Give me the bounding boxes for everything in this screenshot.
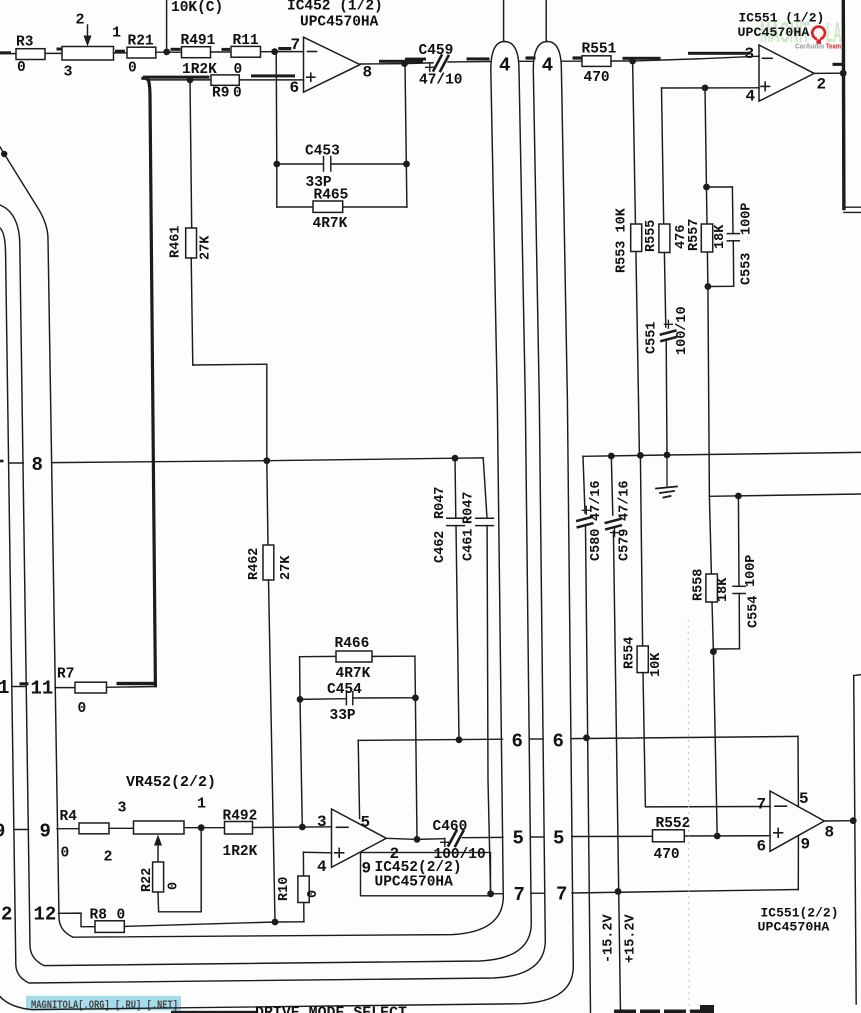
partial bold text DRIVE MODE SELECT (cut at bottom) [255, 1005, 407, 1013]
resistor R553 [615, 207, 642, 455]
terminal 3 label (VR452) [118, 800, 127, 817]
svg-text:4R7K: 4R7K [336, 666, 371, 682]
svg-text:12: 12 [34, 904, 57, 926]
svg-text:UPC4570HA: UPC4570HA [758, 920, 830, 935]
label 47/10 (C459) [419, 73, 463, 89]
wire C551 down to ground rail [665, 341, 668, 455]
svg-text:9: 9 [362, 860, 372, 878]
resistor R22 [140, 862, 182, 892]
svg-text:3: 3 [745, 45, 755, 63]
svg-text:6: 6 [512, 731, 523, 753]
potentiometer VR451 body [62, 47, 114, 61]
wire from left edge to R3 [0, 51, 16, 54]
partial label 10K(C) at top edge [171, 0, 223, 16]
wire R551 to node [611, 60, 633, 62]
wire right edge net [854, 675, 861, 1004]
capacitor C462 [433, 458, 464, 740]
svg-text:R558: R558 [692, 569, 707, 601]
svg-text:UPC4570HA: UPC4570HA [738, 25, 810, 40]
thick wire horizontal segment at +input [143, 76, 210, 79]
svg-text:8: 8 [363, 64, 373, 82]
wire R8 to node [124, 922, 275, 926]
label -15.2V [602, 913, 617, 963]
svg-text:R047: R047 [462, 492, 477, 524]
wire rail7 mid [531, 892, 544, 894]
wire R491 to R11 [211, 48, 232, 52]
pin 4 label (IC551-1) [746, 88, 756, 106]
svg-text:27K: 27K [199, 235, 214, 260]
wire rail 9 to R4 [57, 828, 79, 830]
wire rail5 to R552 [572, 835, 653, 837]
label UPC4570HA (IC452 1/2) [300, 15, 379, 31]
pin 3 label (IC452-2) [317, 813, 327, 831]
node 5 label (loop1) [513, 828, 524, 850]
ground symbol [656, 455, 677, 498]
wire pin4 corner to R10 [303, 851, 331, 854]
node pin4/R557 junction [702, 85, 709, 92]
svg-text:C579: C579 [618, 529, 633, 561]
wire rail5 mid [531, 836, 544, 838]
svg-text:R4: R4 [60, 809, 78, 825]
capacitor C579 (electrolytic) [606, 456, 633, 1013]
svg-text:7: 7 [757, 796, 767, 814]
svg-text:R552: R552 [656, 816, 691, 832]
svg-text:470: 470 [654, 847, 680, 863]
svg-text:5: 5 [361, 814, 371, 832]
svg-text:3: 3 [317, 813, 327, 831]
op-amp U4 IC551 (2/2) triangle [770, 791, 824, 851]
node C551/ground junction [664, 452, 671, 459]
wire loop left side [299, 657, 301, 700]
capacitor C460 (electrolytic) [417, 831, 503, 847]
svg-text:C454: C454 [327, 682, 362, 698]
wire rail6 drop to IC551-2 pin5 [797, 736, 799, 806]
wire horizontal rail y455 [583, 452, 861, 456]
label IC452 (2/2) text [375, 860, 462, 876]
node R558/C554 junction [710, 648, 717, 655]
svg-text:18K: 18K [713, 224, 728, 249]
wire R3 to VR451 [45, 48, 65, 54]
resistor R554 [622, 455, 664, 677]
svg-text:4: 4 [542, 55, 553, 77]
svg-text:DRIVE MODE SELECT: DRIVE MODE SELECT [255, 1005, 407, 1013]
svg-text:9: 9 [801, 836, 811, 854]
svg-text:33P: 33P [330, 708, 356, 724]
wire IC551-2 output [824, 820, 853, 822]
svg-text:R492: R492 [223, 809, 258, 825]
pin 6 label [290, 79, 300, 97]
svg-text:10K: 10K [649, 652, 664, 677]
label IC452 (1/2) [287, 0, 383, 15]
svg-text:47/16: 47/16 [589, 480, 604, 521]
pin 2 label (IC452-2) [390, 845, 400, 863]
wire pot to R492 [184, 827, 225, 829]
resistor R8 [90, 908, 126, 933]
wire down to pin6 rail [713, 652, 717, 836]
thick wire vertical (R7 net riser) [143, 78, 155, 685]
wire rail7 left [491, 893, 504, 895]
capacitor C454 [300, 682, 415, 724]
node output to thick bus [840, 70, 847, 77]
svg-text:C462: C462 [433, 531, 448, 563]
svg-text:CarAudio: CarAudio [795, 42, 824, 51]
label IC551 (1/2) [739, 11, 825, 26]
svg-text:27K: 27K [279, 555, 294, 580]
wire rail y496 to right edge [709, 494, 861, 496]
svg-text:18K: 18K [716, 577, 731, 602]
partial bold text fragments bottom right [614, 1005, 714, 1013]
capacitor C459 (electrolytic) [405, 56, 463, 72]
node output junction (IC452-2) [414, 836, 421, 843]
wire rail7 right [572, 890, 798, 894]
wire R11 to node [261, 51, 275, 53]
svg-text:3: 3 [64, 64, 73, 81]
node C462 bottom junction [456, 736, 463, 743]
label UPC4570HA (IC551-2) [758, 920, 830, 935]
node 9 rail edge glyph [0, 821, 5, 843]
wire stub into balloon 2 from top [545, 0, 547, 42]
node 6 label (loop2) [553, 731, 564, 753]
thick wire right edge bus [843, 0, 861, 212]
wire tick L1-L2 (rail 9) [14, 829, 28, 831]
svg-text:4: 4 [317, 858, 327, 876]
node pot/R492 junction [198, 824, 205, 831]
svg-text:1R2K: 1R2K [223, 844, 258, 860]
wire bus line L2 [0, 42, 531, 966]
wire R7 to thick riser [107, 682, 158, 688]
op-amp U3 IC452 (2/2) triangle [332, 809, 387, 867]
svg-text:0: 0 [78, 701, 87, 717]
wire R554 to IC551-2 pin7 [643, 673, 770, 807]
pin 8 label (IC551-2) [825, 824, 835, 842]
wire rail6 drop to IC452-2 pin5 [358, 740, 359, 818]
svg-text:470: 470 [584, 70, 610, 86]
svg-text:7: 7 [556, 884, 567, 906]
svg-text:7: 7 [514, 884, 525, 906]
watermark MAGNITOLA bottom-left banner [26, 996, 181, 1012]
node 11 label [31, 678, 54, 700]
svg-text:4R7K: 4R7K [313, 216, 348, 232]
svg-text:4: 4 [746, 88, 756, 106]
svg-text:2: 2 [817, 76, 827, 94]
wire R553 riser [633, 61, 639, 400]
wire balloon2 to R551 [561, 56, 582, 61]
svg-text:R491: R491 [181, 33, 216, 49]
wire R492 to pin 3 [253, 826, 332, 829]
terminal 1 label (VR452) [197, 796, 206, 813]
node junction R21/R491 [163, 48, 180, 56]
svg-text:6: 6 [757, 838, 767, 856]
node pin7 net junction [271, 47, 291, 55]
svg-text:0: 0 [128, 61, 137, 77]
svg-text:5: 5 [513, 828, 524, 850]
pin 3 label (IC551-1) [745, 45, 755, 63]
label 100/10 (C460) [434, 847, 486, 863]
potentiometer VR452 (2/2) body [134, 821, 185, 834]
svg-text:C461: C461 [462, 529, 477, 561]
resistor R465 [277, 164, 407, 232]
fold artifact dotted line [687, 620, 690, 1013]
svg-text:R22: R22 [140, 868, 155, 892]
svg-text:10K(C): 10K(C) [171, 0, 223, 16]
pin 9 label (IC452-2) [362, 860, 372, 878]
svg-text:8: 8 [32, 454, 43, 476]
svg-text:C554: C554 [747, 596, 762, 628]
resistor R555 [644, 220, 689, 253]
svg-text:100/10: 100/10 [675, 306, 690, 355]
pin 9 label (IC551-2) [801, 836, 811, 854]
resistor R7 [57, 667, 107, 718]
svg-text:R3: R3 [16, 35, 33, 51]
node 4 label (balloon 2) [542, 55, 553, 77]
pin 7 label (IC551-2) [757, 796, 767, 814]
node junction R461 tap [187, 77, 194, 84]
wire node to op-amp pin 7 [275, 51, 304, 53]
junction on L3 diagonal [1, 151, 7, 157]
pin 6 label (IC551-2) [757, 838, 767, 856]
resistor R557 [687, 219, 728, 252]
wire bus loop2 outer (to bottom-left exit) [0, 42, 573, 1010]
svg-text:UPC4570HA: UPC4570HA [375, 875, 454, 891]
svg-text:R7: R7 [57, 667, 74, 683]
node 6 label (loop1) [512, 731, 523, 753]
node 8 rail edge stub [0, 460, 4, 463]
svg-text:6: 6 [553, 731, 564, 753]
svg-text:1: 1 [197, 796, 206, 813]
wire R462 down to rail 12 [269, 580, 276, 922]
label VR452 (2/2) [126, 774, 216, 791]
wire tick L1-L2 (rail 11) [12, 682, 29, 686]
node C462 tap [452, 455, 459, 462]
wire rail7 riser to IC551-2 pin9 [797, 836, 799, 890]
wire between balloons [519, 56, 536, 61]
label C459 [419, 43, 454, 59]
svg-text:Team: Team [826, 42, 841, 51]
svg-text:6: 6 [290, 79, 300, 97]
svg-text:C553: C553 [740, 253, 755, 285]
pin 5 label (IC551-2) [799, 790, 809, 808]
svg-text:R8: R8 [90, 908, 107, 924]
svg-text:100P: 100P [740, 203, 755, 235]
wire feedback right riser [405, 64, 407, 207]
svg-text:IC551(2/2): IC551(2/2) [761, 906, 839, 921]
wire rail6 right segment [572, 736, 799, 738]
wire C459 to balloon1 [462, 57, 490, 61]
svg-text:VR452(2/2): VR452(2/2) [126, 774, 216, 791]
wire node to R10 [275, 921, 304, 923]
node pin3 junction (IC452-2) [299, 824, 306, 831]
node feedback right top [403, 161, 410, 168]
capacitor C551 (electrolytic) [645, 306, 691, 355]
node feedback left top [273, 161, 280, 168]
node 5 label (loop2) [553, 828, 564, 850]
wire R552 to pin6 [684, 835, 770, 837]
resistor R462 [247, 461, 294, 580]
capacitor C461 [462, 458, 494, 894]
label UPC4570HA (IC551 1/2) [738, 25, 810, 40]
node C454 left junction [297, 696, 304, 703]
svg-text:100P: 100P [744, 555, 759, 587]
wire tick L1-L2 (rail 8) [9, 462, 24, 464]
node 8 label [32, 454, 43, 476]
wire loop right side [414, 656, 417, 698]
wire from top edge into junction [166, 0, 168, 52]
svg-text:4: 4 [499, 55, 510, 77]
svg-text:C460: C460 [433, 819, 468, 835]
svg-text:C551: C551 [645, 322, 660, 354]
label 33P (C453) [306, 175, 332, 191]
svg-text:R553 10K: R553 10K [615, 207, 630, 273]
svg-text:0: 0 [61, 846, 70, 862]
svg-text:+15.2V: +15.2V [624, 913, 639, 963]
resistor R466 [300, 636, 415, 682]
svg-text:0: 0 [233, 86, 242, 102]
wire feedback down to output [415, 698, 417, 840]
svg-text:0: 0 [117, 908, 126, 924]
resistor R551 [582, 42, 617, 87]
resistor R21 [127, 34, 156, 77]
svg-text:R21: R21 [128, 34, 154, 50]
svg-text:0: 0 [306, 890, 321, 898]
capacitor C554 [713, 496, 761, 649]
wire R22 to pot terminal 1 [158, 828, 201, 912]
wire R21 to junction [156, 51, 182, 53]
wire IC452-2 output [386, 838, 417, 839]
label box IC452 (2/2) [361, 853, 491, 896]
svg-text:C580: C580 [589, 529, 604, 561]
label C453 [305, 144, 340, 160]
node R553 tap [623, 57, 661, 65]
node 12 rail edge glyph [1, 904, 12, 926]
terminal label 3 (VR451) [64, 64, 73, 81]
svg-text:9: 9 [0, 821, 5, 843]
wire bus line L1 [0, 42, 547, 984]
node 4 label (balloon 1) [499, 55, 510, 77]
node 12 label [34, 904, 57, 926]
label IC551 (2/2) [761, 906, 839, 921]
svg-text:R9: R9 [212, 86, 229, 102]
wire rail6 left segment [358, 739, 502, 740]
node 7 label (loop2) [556, 884, 567, 906]
svg-text:R047: R047 [433, 487, 448, 519]
svg-text:100/10: 100/10 [434, 847, 486, 863]
svg-text:2: 2 [104, 849, 113, 866]
node C579 bottom junction [615, 888, 622, 895]
watermark MAGNITOLA logo [760, 17, 842, 51]
pin 5 label (IC452-2) [361, 814, 371, 832]
wire IC551-1 pin4 net [662, 87, 760, 89]
wire rail 11 to R7 [55, 687, 75, 689]
node C554 tap [735, 493, 742, 500]
terminal label 1 (VR451) [112, 25, 121, 42]
node R462/R10 junction [272, 919, 279, 926]
svg-text:R551: R551 [582, 42, 617, 58]
svg-text:1: 1 [0, 677, 9, 699]
wire R555 riser upper [662, 88, 664, 224]
pin 7 label [291, 36, 301, 54]
node C580 bottom junction [583, 734, 590, 741]
wire bus line L3 (outer left trace with top diagonal) [0, 42, 505, 938]
svg-text:R555: R555 [644, 220, 659, 252]
svg-text:C459: C459 [419, 43, 454, 59]
svg-text:47/16: 47/16 [618, 480, 633, 521]
node C579 tap [608, 453, 615, 460]
label UPC4570HA (IC452-2) [375, 875, 454, 891]
svg-text:47/10: 47/10 [419, 73, 463, 89]
wire rail6 mid [530, 738, 543, 740]
label C460 [433, 819, 468, 835]
wire rail 8 [52, 458, 483, 463]
wire VR451 to R21 [114, 50, 128, 53]
op-amp U1 IC452 (1/2) triangle [304, 37, 361, 92]
svg-text:R10: R10 [277, 877, 292, 901]
svg-text:R461: R461 [169, 226, 184, 258]
wire R4 to VR452 [109, 827, 134, 829]
node 7 label (loop1) [514, 884, 525, 906]
node output junction (IC551-2) [850, 817, 857, 824]
wire R9 to op-amp pin 6 [239, 74, 303, 80]
resistor R9 [211, 75, 242, 102]
capacitor C580 (electrolytic) [577, 456, 604, 1013]
capacitor C453 [277, 157, 407, 172]
node C553 bottom junction [705, 283, 712, 290]
svg-text:-15.2V: -15.2V [602, 913, 617, 963]
resistor R3 [16, 35, 45, 77]
wire +input from riser to R9 [147, 79, 212, 81]
svg-text:8: 8 [825, 824, 835, 842]
resistor R10 [277, 852, 321, 922]
svg-text:9: 9 [40, 821, 51, 843]
op-amp U2 IC551 (1/2) triangle [759, 45, 814, 101]
capacitor C553 [707, 187, 755, 287]
pin 2 label (IC551-1) [817, 76, 827, 94]
wire R555 to C551 [664, 253, 665, 328]
node R462 top junction [263, 457, 270, 464]
pin 4 label (IC452-2) [317, 858, 327, 876]
svg-text:3: 3 [118, 800, 127, 817]
terminal label 2 with wiper arrow (VR451) [76, 12, 92, 47]
resistor R461 [169, 80, 214, 260]
partial bold text bar left of DRIVE text [171, 1011, 256, 1013]
svg-text:2: 2 [1, 904, 12, 926]
wire pin7-node down to feedback [275, 52, 278, 164]
wire R557 down to rail [708, 287, 710, 497]
node C454 right junction [412, 694, 419, 701]
svg-text:5: 5 [799, 790, 809, 808]
wire node to IC551 pin 3 [633, 52, 759, 61]
svg-text:2: 2 [76, 12, 85, 29]
node 9 label [40, 821, 51, 843]
svg-text:7: 7 [291, 36, 301, 54]
wire R557 riser [705, 88, 708, 287]
svg-text:R466: R466 [335, 636, 370, 652]
svg-text:R554: R554 [622, 637, 637, 669]
resistor R11 [231, 33, 261, 78]
svg-text:C453: C453 [305, 144, 340, 160]
resistor R491 [181, 33, 218, 78]
node C461 bottom junction [487, 890, 494, 897]
wire op-amp output to C459 node [360, 60, 423, 64]
wire R461 to R462 [191, 258, 267, 461]
resistor R552 [653, 816, 691, 863]
resistor R558 [692, 496, 732, 651]
wire stub into balloon 1 from top [503, 0, 505, 42]
wiper arrow VR452 [104, 835, 163, 866]
wire IC551-1 output to right bus [814, 63, 844, 74]
svg-text:0: 0 [167, 882, 182, 890]
wire pin3 riser [300, 699, 302, 827]
node C553 top junction [703, 184, 710, 191]
